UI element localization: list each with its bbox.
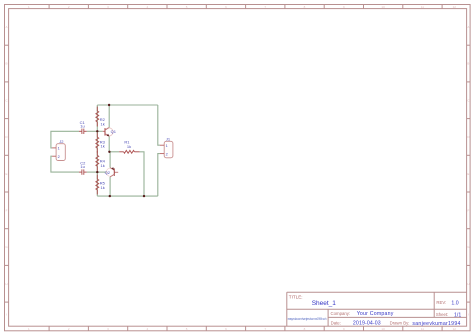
svg-text:10: 10 <box>381 327 385 331</box>
svg-text:E: E <box>5 172 7 176</box>
wire Q1 base <box>97 130 102 132</box>
svg-text:sanjeevkumar1994: sanjeevkumar1994 <box>412 321 460 327</box>
svg-text:1: 1 <box>166 144 168 148</box>
wire C2 to J2 pin2 <box>51 156 79 172</box>
title block vertical divider url cell <box>327 309 329 326</box>
svg-text:1k: 1k <box>101 185 105 190</box>
wire C2 right to node B <box>87 171 98 173</box>
svg-text:1k: 1k <box>101 144 105 149</box>
svg-text:Drawn By:: Drawn By: <box>390 321 410 326</box>
svg-text:H: H <box>5 282 7 286</box>
svg-text:1: 1 <box>58 147 60 151</box>
frame column ticks bottom <box>49 326 442 331</box>
svg-text:A: A <box>467 25 469 29</box>
svg-text:Q2: Q2 <box>105 170 111 175</box>
svg-text:B: B <box>467 62 469 66</box>
wire C1 to J2 pin1 <box>51 131 79 148</box>
frame column ticks top <box>49 5 442 9</box>
wire chain vertical <box>96 105 98 196</box>
resistor R5 <box>96 175 99 195</box>
svg-text:11: 11 <box>421 5 424 9</box>
connector J1 (right) <box>160 141 173 158</box>
wire bottom rail <box>97 195 158 197</box>
svg-text:Date:: Date: <box>331 321 341 326</box>
resistor R2 <box>96 107 99 127</box>
junction dot top rail / Q1 collector <box>108 104 110 106</box>
wire right upper: top rail to J1 pin1 <box>158 105 160 145</box>
connector J2 (left) <box>52 144 65 161</box>
svg-text:11: 11 <box>421 327 424 331</box>
junction node B (Q2 base / C2) <box>96 171 98 173</box>
svg-text:E: E <box>467 172 469 176</box>
svg-text:12: 12 <box>453 5 457 9</box>
svg-text:TITLE:: TITLE: <box>289 295 303 300</box>
title block vertical divider rev/sheet <box>433 292 435 317</box>
wire Q2 collector up to node C <box>109 152 111 168</box>
wire R1 right down to bottom rail <box>140 152 144 196</box>
svg-text:easyeda.com/sanjeevkumar1994 s: easyeda.com/sanjeevkumar1994 sch <box>288 317 327 321</box>
svg-text:A: A <box>5 25 7 29</box>
svg-text:1u: 1u <box>80 164 84 169</box>
svg-text:2: 2 <box>58 155 60 159</box>
junction bottom rail / Q2 emitter <box>109 195 111 197</box>
svg-text:1k: 1k <box>101 163 105 168</box>
svg-text:Q1: Q1 <box>111 129 117 134</box>
wire Q2 emitter down to bottom rail <box>109 177 111 196</box>
wire Q2 base <box>97 171 107 173</box>
svg-text:Sheet:: Sheet: <box>436 312 448 317</box>
wire C1 right to node A <box>87 130 98 132</box>
svg-text:H: H <box>467 282 469 286</box>
capacitor C1 <box>79 129 87 134</box>
svg-text:1/1: 1/1 <box>454 312 461 318</box>
wire node C to R1 left <box>109 151 119 153</box>
svg-text:Company:: Company: <box>331 311 351 316</box>
capacitor C2 <box>79 169 87 174</box>
frame row ticks right <box>467 45 471 302</box>
transistor Q2 (mirrored) <box>106 167 118 177</box>
resistor R1 (horizontal) <box>119 150 139 153</box>
frame row ticks left <box>5 45 9 302</box>
svg-text:2: 2 <box>166 152 168 156</box>
svg-text:1k: 1k <box>101 121 105 126</box>
transistor Q1 <box>103 128 113 137</box>
svg-text:10: 10 <box>381 5 385 9</box>
svg-text:1u: 1u <box>80 124 84 129</box>
wire Q1 emitter down to node C <box>108 136 110 152</box>
wire top rail <box>97 104 158 106</box>
title block outline <box>287 291 467 293</box>
svg-text:F: F <box>6 209 8 213</box>
svg-text:F: F <box>467 209 469 213</box>
svg-text:1.0: 1.0 <box>451 301 458 307</box>
junction node C (Q1 emitter / R1 / Q2 collector) <box>108 151 110 153</box>
svg-text:12: 12 <box>453 327 457 331</box>
wire right lower: J1 pin2 down to bottom rail <box>158 154 160 197</box>
junction bottom rail / R1 <box>143 195 145 197</box>
svg-text:Sheet_1: Sheet_1 <box>312 300 337 307</box>
svg-text:REV:: REV: <box>436 300 446 305</box>
svg-text:2019-04-03: 2019-04-03 <box>353 320 381 326</box>
junction node A (Q1 base / C1) <box>96 130 98 132</box>
svg-text:B: B <box>5 62 7 66</box>
resistor R4 <box>96 151 99 171</box>
svg-text:Your Company: Your Company <box>357 311 394 317</box>
title block divider under title row <box>287 308 467 310</box>
resistor R3 <box>96 133 99 153</box>
title block divider under company row <box>328 316 467 318</box>
svg-text:1k: 1k <box>127 144 131 149</box>
wire Q1 collector up <box>108 105 110 127</box>
